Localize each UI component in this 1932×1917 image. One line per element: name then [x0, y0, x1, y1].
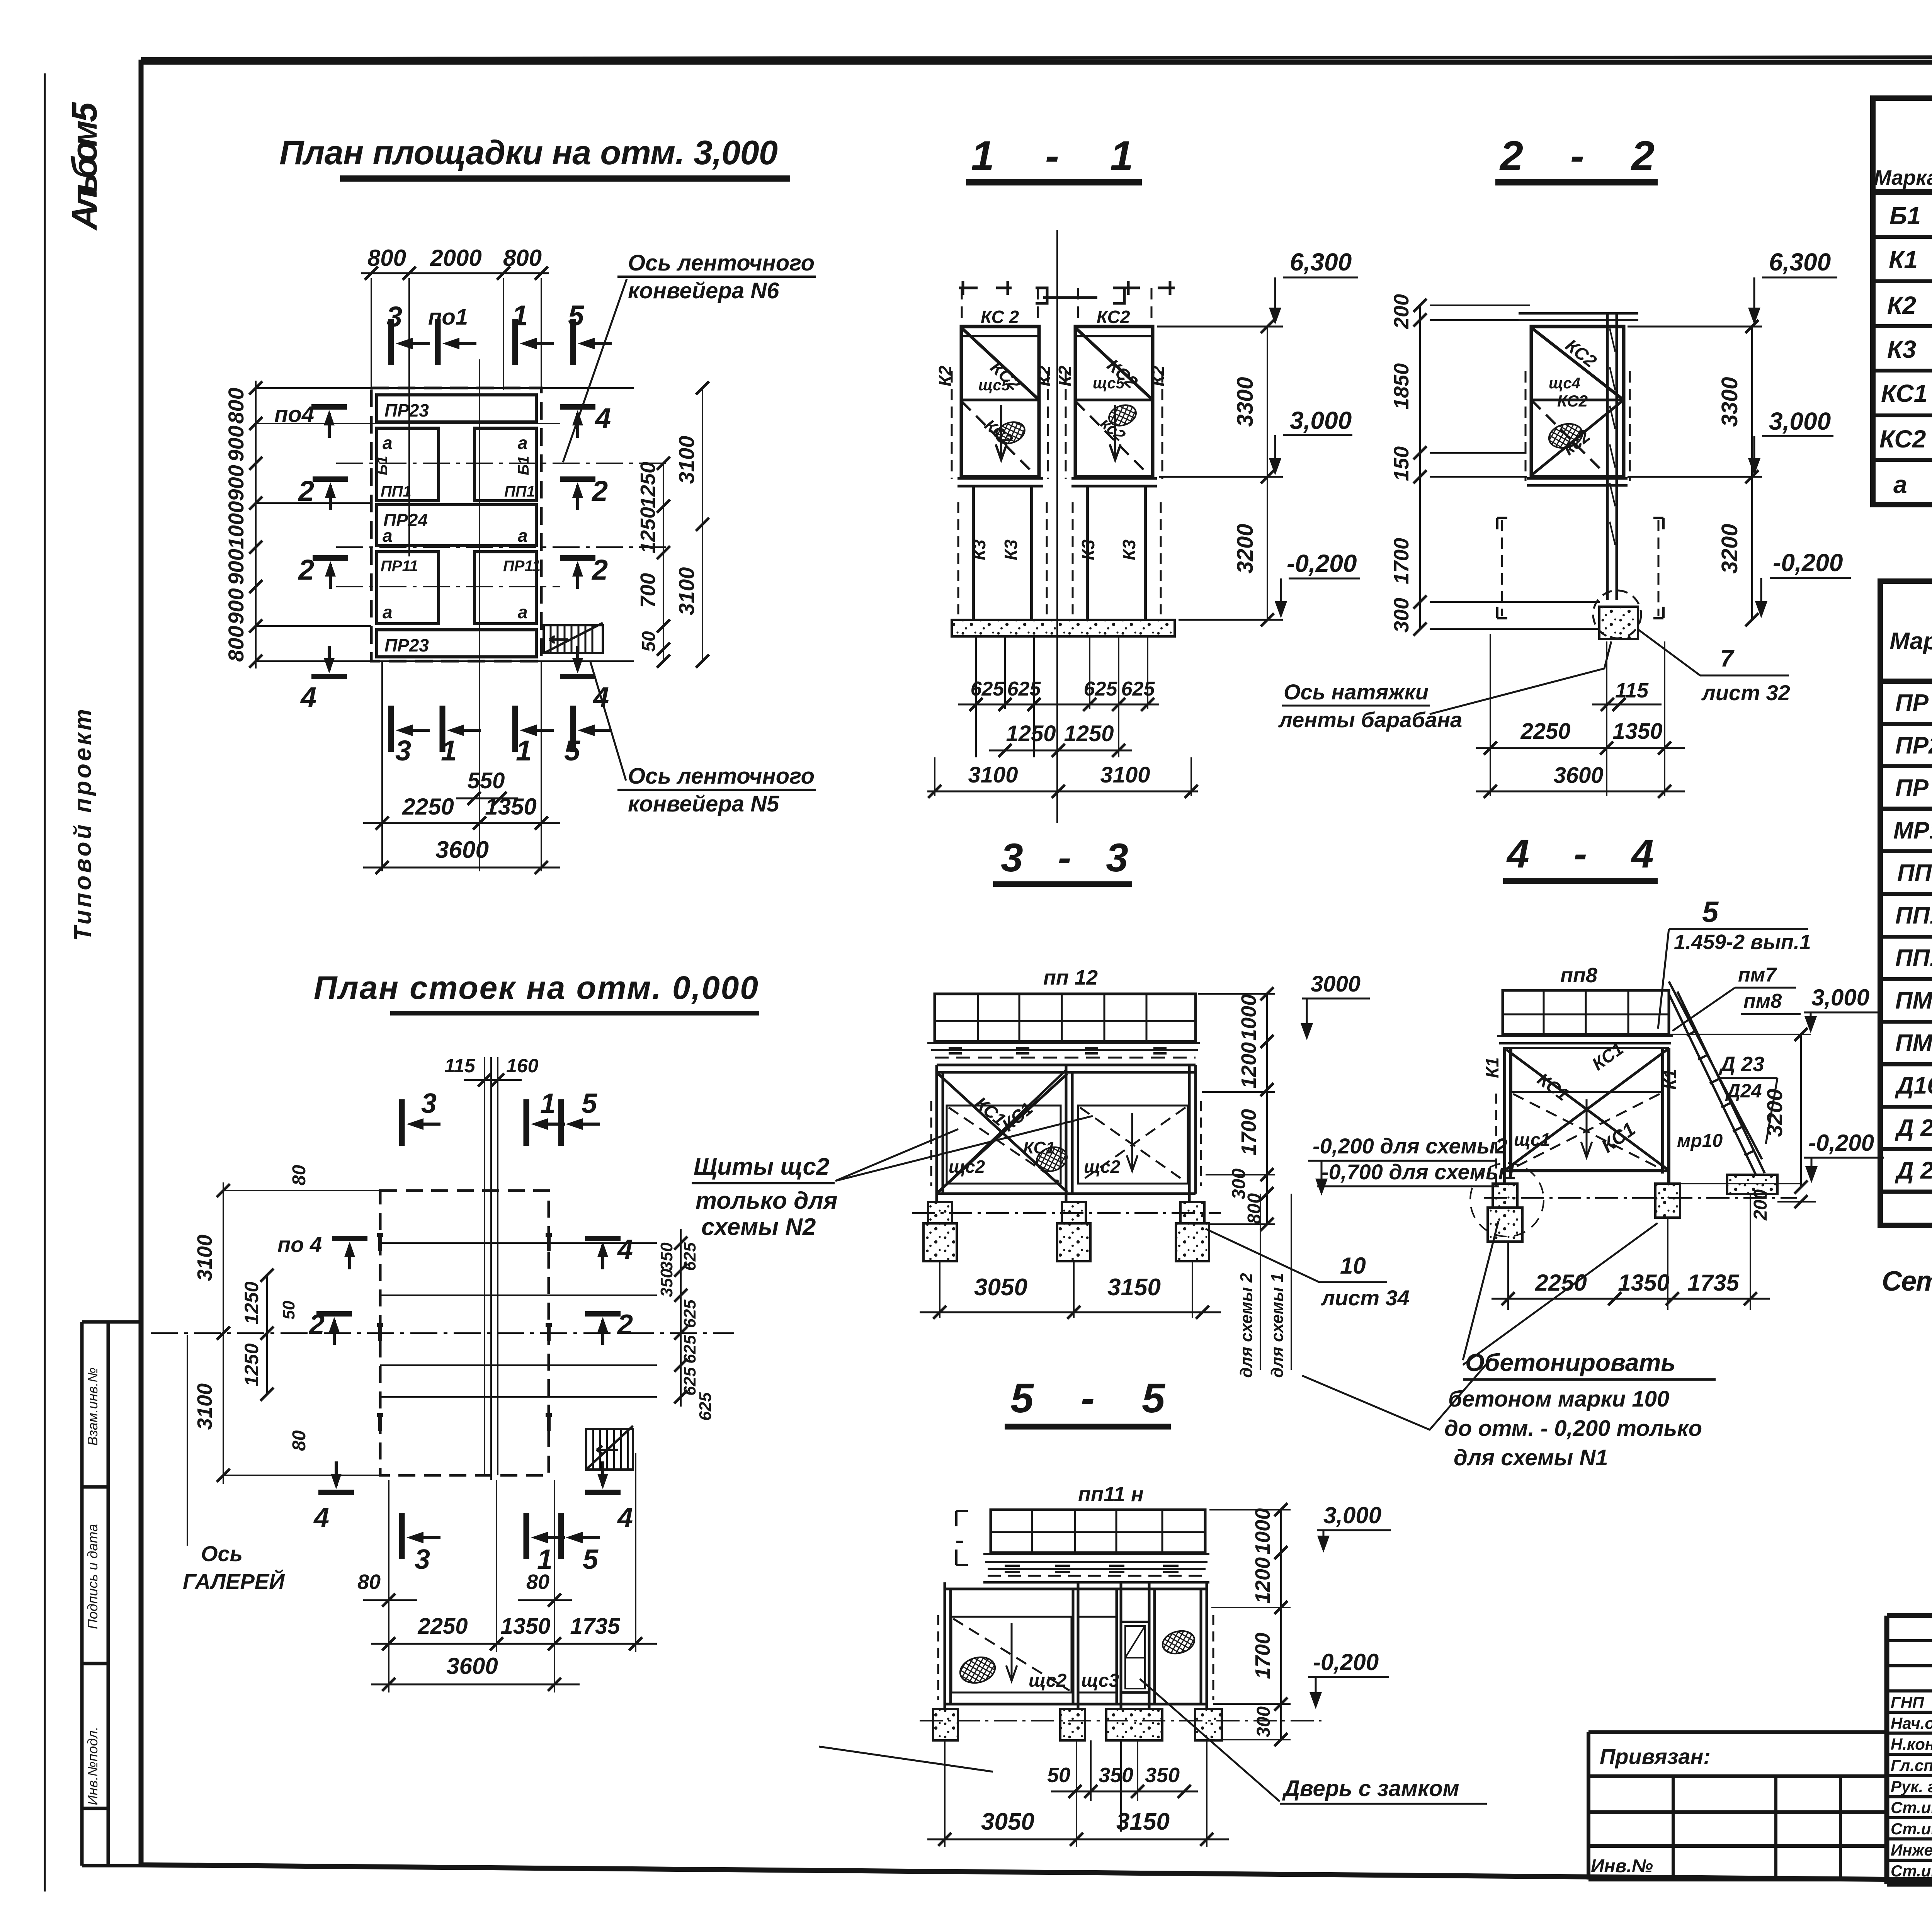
svg-text:ПП1: ПП1	[504, 483, 535, 500]
svg-text:пп8: пп8	[1560, 964, 1597, 987]
svg-text:ГАЛЕРЕЙ: ГАЛЕРЕЙ	[183, 1569, 285, 1594]
svg-text:4: 4	[617, 1502, 633, 1533]
svg-text:3200: 3200	[1717, 524, 1742, 573]
svg-text:2250: 2250	[1520, 719, 1570, 744]
svg-text:К1: К1	[1482, 1057, 1502, 1078]
railing 5-5	[991, 1510, 1205, 1553]
svg-text:ПР23: ПР23	[1895, 732, 1932, 759]
svg-text:К1: К1	[1889, 246, 1918, 274]
svg-text:Взам.инв.№: Взам.инв.№	[85, 1368, 100, 1446]
SECTION 2-2 drawing	[1497, 312, 1663, 639]
svg-text:Инв.№подл.: Инв.№подл.	[85, 1726, 100, 1805]
svg-text:ПП1: ПП1	[381, 483, 412, 500]
svg-text:КС2: КС2	[1557, 392, 1588, 410]
svg-text:К2: К2	[1148, 366, 1168, 386]
svg-text:350: 350	[1145, 1764, 1180, 1787]
svg-text:1735: 1735	[570, 1614, 620, 1639]
left dim ticks + labels	[249, 381, 262, 668]
svg-text:900: 900	[224, 549, 248, 585]
svg-text:2: 2	[591, 475, 608, 507]
column corner marks	[377, 1235, 552, 1431]
svg-text:1350: 1350	[485, 794, 536, 820]
bottom dims 5-5	[1051, 1791, 1198, 1793]
svg-text:2000: 2000	[430, 245, 481, 271]
axis dash-dot lines	[336, 463, 668, 587]
svg-text:а: а	[1893, 471, 1907, 498]
svg-text:КС 2: КС 2	[981, 307, 1019, 327]
svg-text:по 4: по 4	[277, 1232, 322, 1257]
svg-text:ГНП: ГНП	[1891, 1693, 1924, 1711]
svg-text:80: 80	[289, 1165, 310, 1186]
svg-text:1700: 1700	[1237, 1109, 1260, 1155]
paper edge line	[44, 73, 46, 1891]
svg-text:К2: К2	[1034, 366, 1054, 386]
svg-text:ПП12: ПП12	[1895, 945, 1932, 971]
svg-text:350: 350	[1099, 1764, 1133, 1787]
svg-text:4: 4	[594, 402, 611, 434]
svg-text:5: 5	[564, 735, 581, 767]
svg-text:Марка: Марка	[1889, 628, 1932, 655]
title section 1-1	[966, 132, 1142, 182]
stairs hatch	[544, 623, 603, 653]
svg-text:пп11 н: пп11 н	[1078, 1483, 1144, 1506]
svg-text:ПП8: ПП8	[1897, 860, 1932, 886]
svg-text:Д 24: Д 24	[1895, 1157, 1932, 1184]
svg-text:3600: 3600	[446, 1653, 498, 1679]
internal platform boxes	[377, 395, 536, 657]
svg-text:800: 800	[1244, 1193, 1265, 1224]
svg-text:4: 4	[617, 1234, 633, 1265]
svg-text:1: 1	[516, 735, 532, 767]
svg-text:3100: 3100	[674, 567, 699, 616]
svg-text:а: а	[383, 602, 393, 622]
svg-text:по4: по4	[274, 402, 314, 427]
bottom dims 3-3	[920, 1311, 1221, 1313]
frame 3-3	[937, 1065, 1196, 1194]
svg-text:лист 32: лист 32	[1701, 680, 1790, 705]
svg-text:Д16: Д16	[1895, 1072, 1932, 1099]
svg-text:КС2: КС2	[1879, 425, 1926, 453]
bottom dims 4-4	[1492, 1298, 1770, 1300]
svg-text:ПМ7: ПМ7	[1895, 987, 1932, 1014]
svg-text:мр10: мр10	[1677, 1131, 1723, 1151]
hatched gussets	[993, 418, 1027, 447]
svg-text:160: 160	[506, 1055, 539, 1077]
foundations 4-4	[1493, 1184, 1517, 1208]
frame 4-4	[1505, 1048, 1669, 1184]
right dim chain 1250/1250/700/50	[663, 463, 664, 661]
svg-text:3100: 3100	[193, 1235, 216, 1281]
svg-text:3,000: 3,000	[1323, 1502, 1381, 1528]
svg-text:схемы N2: схемы N2	[701, 1214, 816, 1240]
base plates	[957, 478, 1157, 486]
svg-text:щс5: щс5	[1093, 375, 1125, 392]
TABLE 1: Vedomost elementov	[1873, 98, 1932, 505]
svg-text:Б1: Б1	[1889, 202, 1921, 230]
svg-text:МР10: МР10	[1893, 817, 1932, 844]
svg-text:7: 7	[1720, 645, 1735, 672]
svg-text:3000: 3000	[1311, 971, 1361, 997]
right dims 5-5	[1209, 1510, 1291, 1740]
title plan stoek	[314, 970, 759, 1013]
plane markers	[332, 1238, 367, 1269]
left dim chain 2-2	[1419, 304, 1421, 629]
svg-text:115: 115	[444, 1055, 476, 1077]
svg-text:1000: 1000	[1237, 994, 1260, 1041]
svg-text:350: 350	[657, 1269, 676, 1297]
svg-text:для схемы 2: для схемы 2	[1237, 1273, 1256, 1378]
svg-text:1735: 1735	[1687, 1270, 1740, 1296]
svg-text:щс5: щс5	[978, 377, 1010, 394]
svg-text:625: 625	[1084, 678, 1118, 700]
title section 4-4	[1503, 832, 1658, 881]
svg-text:800: 800	[224, 626, 248, 662]
foundation	[1599, 607, 1638, 639]
svg-text:800: 800	[224, 388, 248, 424]
svg-text:3050: 3050	[974, 1274, 1027, 1301]
svg-text:625: 625	[680, 1300, 699, 1328]
svg-text:щс2: щс2	[1084, 1157, 1121, 1177]
tower 2-2	[1531, 327, 1624, 477]
plane markers left/right	[311, 407, 347, 438]
svg-text:3150: 3150	[1107, 1274, 1161, 1301]
svg-text:625: 625	[1121, 678, 1155, 700]
svg-text:1250: 1250	[1006, 721, 1056, 746]
svg-text:50: 50	[639, 631, 659, 652]
svg-text:ПР 24: ПР 24	[1895, 775, 1932, 801]
svg-text:-0,200: -0,200	[1313, 1649, 1379, 1675]
svg-text:50: 50	[279, 1301, 298, 1320]
svg-text:Ось: Ось	[201, 1541, 243, 1566]
svg-text:К3: К3	[1001, 539, 1021, 560]
svg-text:2250: 2250	[417, 1614, 468, 1639]
skhema lines	[1260, 1194, 1291, 1370]
svg-text:1700: 1700	[1251, 1633, 1274, 1679]
deck 3-3	[927, 1043, 1200, 1050]
left dim chain	[255, 381, 257, 668]
svg-text:КС1: КС1	[1023, 1138, 1055, 1157]
svg-text:2 - 2: 2 - 2	[1499, 132, 1655, 179]
lower columns K3	[973, 486, 1145, 620]
svg-text:а: а	[518, 433, 528, 453]
svg-text:3600: 3600	[435, 837, 489, 863]
leader os natyazhki	[1430, 641, 1611, 714]
svg-text:6,300: 6,300	[1290, 248, 1352, 276]
PLAN STOEK drawing	[151, 1057, 734, 1484]
svg-text:625: 625	[1007, 678, 1041, 700]
top clips	[959, 281, 1012, 295]
svg-text:ПР23: ПР23	[384, 400, 429, 420]
beam top lines	[1519, 313, 1638, 320]
svg-text:5: 5	[583, 1544, 599, 1575]
svg-text:4: 4	[300, 681, 316, 713]
svg-text:2250: 2250	[1535, 1270, 1587, 1296]
base plate	[1527, 478, 1628, 485]
door	[1121, 1622, 1149, 1692]
grid lines right extensions	[380, 1243, 657, 1397]
svg-text:Н.контр.: Н.контр.	[1891, 1735, 1932, 1753]
svg-text:пп 12: пп 12	[1043, 966, 1098, 989]
frame 5-5	[945, 1582, 1207, 1709]
leader from shchit to left	[819, 1747, 993, 1772]
svg-text:80: 80	[526, 1570, 549, 1594]
svg-text:5: 5	[568, 299, 585, 332]
TITLE BLOCK bottom right	[1887, 1616, 1932, 1884]
svg-text:6,300: 6,300	[1769, 248, 1831, 276]
svg-text:300: 300	[1253, 1706, 1274, 1737]
svg-text:КС2: КС2	[1097, 307, 1130, 327]
svg-text:2: 2	[591, 554, 608, 586]
svg-text:3: 3	[395, 735, 411, 767]
svg-text:1000: 1000	[1251, 1508, 1274, 1555]
section markers bottom	[391, 706, 430, 752]
svg-text:1250: 1250	[636, 462, 660, 508]
svg-text:щс4: щс4	[1549, 375, 1580, 392]
svg-text:Ось ленточного: Ось ленточного	[628, 250, 815, 276]
svg-text:К1: К1	[1660, 1069, 1680, 1090]
svg-text:для схемы N1: для схемы N1	[1454, 1445, 1608, 1470]
svg-text:по1: по1	[428, 304, 468, 330]
axis labels conveyor N6	[563, 250, 816, 462]
svg-text:План площадки на отм. 3,000: План площадки на отм. 3,000	[279, 133, 778, 172]
svg-text:1350: 1350	[500, 1614, 550, 1639]
svg-text:План стоек на отм. 0,000: План стоек на отм. 0,000	[314, 970, 758, 1006]
svg-text:200: 200	[1750, 1189, 1771, 1221]
privyazan block	[1588, 1732, 1887, 1880]
right small dim chain	[680, 1229, 682, 1407]
svg-text:а: а	[518, 602, 528, 622]
right levels 2-2	[1628, 277, 1851, 620]
svg-text:конвейера N5: конвейера N5	[628, 791, 779, 816]
svg-text:К3: К3	[1119, 539, 1139, 560]
svg-text:Нач.отд.: Нач.отд.	[1891, 1714, 1932, 1732]
svg-text:550: 550	[468, 768, 505, 793]
plan outline dashed	[371, 388, 541, 661]
svg-text:1000: 1000	[224, 501, 248, 549]
title section 5-5	[1005, 1374, 1171, 1427]
svg-text:700: 700	[636, 573, 660, 608]
extension verticals	[389, 1453, 636, 1692]
svg-text:800: 800	[367, 245, 406, 271]
svg-text:Ось натяжки: Ось натяжки	[1284, 680, 1429, 704]
section markers top (plan stoek)	[402, 1099, 440, 1146]
right tower 1-1	[1075, 327, 1153, 477]
table1 data text	[1879, 201, 1932, 498]
svg-text:1250: 1250	[636, 507, 660, 553]
svg-text:Ст.инж.: Ст.инж.	[1891, 1820, 1932, 1838]
svg-text:К2: К2	[1055, 366, 1075, 386]
svg-text:3 - 3: 3 - 3	[1001, 835, 1128, 880]
panels	[951, 1617, 1071, 1692]
svg-text:Альбом 5: Альбом 5	[65, 102, 104, 231]
svg-text:3600: 3600	[1553, 763, 1603, 788]
svg-text:бетоном марки 100: бетоном марки 100	[1448, 1386, 1669, 1412]
svg-text:К3: К3	[1078, 539, 1098, 560]
svg-text:3: 3	[415, 1544, 430, 1575]
svg-text:а: а	[383, 433, 393, 453]
svg-text:-0,200: -0,200	[1287, 549, 1357, 577]
svg-text:Д24: Д24	[1725, 1080, 1762, 1102]
svg-text:3100: 3100	[193, 1383, 216, 1430]
svg-text:5: 5	[582, 1088, 597, 1119]
svg-text:ПП11н: ПП11н	[1895, 902, 1932, 929]
svg-text:КС1: КС1	[1881, 379, 1927, 407]
svg-text:3,000: 3,000	[1290, 407, 1352, 434]
svg-text:-0,200: -0,200	[1808, 1130, 1874, 1156]
title section 2-2	[1495, 132, 1658, 182]
dashed circle left foundation	[1470, 1163, 1544, 1237]
svg-text:3200: 3200	[1762, 1089, 1787, 1137]
svg-text:5: 5	[1702, 896, 1719, 929]
svg-text:а: а	[383, 526, 393, 546]
svg-text:3200: 3200	[1233, 524, 1258, 573]
margin stamp table	[82, 1322, 141, 1866]
svg-text:1250: 1250	[241, 1343, 262, 1386]
svg-text:625: 625	[971, 678, 1005, 700]
right dim chain 3100/3100	[702, 388, 703, 661]
svg-text:1: 1	[512, 299, 528, 332]
svg-text:900: 900	[224, 465, 248, 501]
svg-text:2: 2	[298, 475, 314, 507]
svg-text:4 - 4: 4 - 4	[1506, 832, 1654, 876]
dashed panel strips	[952, 371, 1162, 479]
svg-text:Инв.№: Инв.№	[1591, 1856, 1653, 1876]
svg-text:К3: К3	[1887, 335, 1916, 363]
dashed hidden	[938, 1615, 1213, 1700]
left bracket column	[956, 1511, 968, 1565]
svg-text:Сетчатые щиты ЩС1 ÷ ЩС5 смот: Сетчатые щиты ЩС1 ÷ ЩС5 смотрите на лист…	[1882, 1266, 1932, 1297]
svg-text:1.459-2 вып.1: 1.459-2 вып.1	[1674, 930, 1811, 954]
svg-text:2250: 2250	[402, 794, 454, 820]
top dim line	[361, 272, 549, 274]
title plan ploshchadki	[279, 133, 790, 179]
hidden side columns below	[1502, 520, 1658, 616]
svg-text:только для: только для	[696, 1187, 838, 1214]
svg-text:Ст.инж.: Ст.инж.	[1891, 1798, 1932, 1817]
svg-text:3,000: 3,000	[1769, 407, 1831, 435]
svg-text:Дверь с замком: Дверь с замком	[1282, 1776, 1459, 1801]
svg-text:200: 200	[1390, 294, 1413, 329]
deck 5-5	[983, 1554, 1209, 1582]
svg-text:1250: 1250	[241, 1281, 262, 1324]
bottom dims 1-1	[927, 638, 1198, 796]
svg-text:3100: 3100	[968, 762, 1018, 788]
svg-text:Б1: Б1	[374, 456, 391, 475]
svg-text:80: 80	[289, 1430, 310, 1451]
svg-text:Инженер: Инженер	[1891, 1841, 1932, 1859]
railing 3-3	[935, 994, 1196, 1041]
svg-text:1850: 1850	[1390, 363, 1413, 410]
svg-text:350: 350	[657, 1242, 676, 1271]
section markers bottom (plan stoek)	[402, 1513, 440, 1559]
crossing leader into frame	[937, 1070, 1066, 1194]
svg-text:115: 115	[1615, 679, 1649, 702]
svg-text:800: 800	[503, 245, 542, 271]
svg-text:2: 2	[308, 1309, 325, 1340]
svg-text:Щиты щс2: Щиты щс2	[694, 1153, 829, 1180]
svg-text:-0,700 для схемы1: -0,700 для схемы1	[1321, 1160, 1516, 1184]
svg-text:Ст.инж.: Ст.инж.	[1891, 1862, 1932, 1880]
right dims 3-3	[1266, 994, 1268, 1224]
svg-text:3050: 3050	[981, 1808, 1034, 1835]
svg-text:щс3: щс3	[1081, 1670, 1119, 1691]
svg-text:-0,200 для схемы2: -0,200 для схемы2	[1313, 1134, 1507, 1158]
svg-text:2: 2	[298, 554, 314, 586]
svg-text:Д 23: Д 23	[1719, 1053, 1764, 1076]
svg-text:625: 625	[680, 1367, 699, 1396]
svg-text:1: 1	[441, 735, 457, 767]
svg-text:Марка: Марка	[1874, 166, 1932, 189]
svg-text:3100: 3100	[1100, 762, 1150, 788]
svg-text:1700: 1700	[1390, 538, 1413, 584]
conveyor axis triple lines	[485, 1057, 498, 1480]
svg-text:Обетонировать: Обетонировать	[1465, 1349, 1675, 1376]
left dim chains	[223, 1182, 224, 1484]
left tower 1-1	[961, 327, 1039, 477]
PLAN PLOSHCHADKI drawing	[256, 273, 668, 871]
signature table texts	[1891, 1693, 1932, 1880]
svg-text:625: 625	[680, 1335, 699, 1364]
foundations 3-3	[928, 1202, 952, 1223]
ladder	[1669, 981, 1765, 1175]
svg-text:Привязан:: Привязан:	[1600, 1744, 1711, 1769]
svg-text:Д 23: Д 23	[1895, 1115, 1932, 1141]
axis labels conveyor N5	[590, 662, 816, 816]
SECTION 1-1 drawing	[952, 230, 1175, 823]
long leader to obetonirovat	[1302, 1358, 1492, 1430]
svg-text:конвейера N6: конвейера N6	[628, 278, 779, 303]
svg-text:ПР11: ПР11	[503, 558, 541, 575]
svg-text:Типовой проект: Типовой проект	[70, 709, 96, 941]
svg-text:3100: 3100	[674, 436, 699, 484]
tower labels	[935, 307, 1168, 560]
main dashed rect	[380, 1191, 549, 1475]
svg-text:ленты барабана: ленты барабана	[1278, 708, 1462, 732]
svg-text:4: 4	[313, 1502, 329, 1533]
svg-text:300: 300	[1390, 598, 1413, 633]
bottom dims	[456, 798, 518, 799]
ground strip	[952, 620, 1175, 636]
svg-text:900: 900	[224, 425, 248, 461]
svg-text:625: 625	[680, 1242, 699, 1271]
section markers top	[391, 319, 430, 365]
svg-text:Рук. гр.: Рук. гр.	[1891, 1778, 1932, 1796]
svg-text:3,000: 3,000	[1811, 985, 1869, 1010]
svg-text:Гл.спец.: Гл.спец.	[1891, 1756, 1932, 1774]
svg-text:ПР11: ПР11	[381, 558, 418, 575]
central column double	[1607, 312, 1617, 600]
svg-text:1350: 1350	[1618, 1270, 1669, 1296]
svg-text:900: 900	[224, 588, 248, 624]
svg-text:до отм. - 0,200 только: до отм. - 0,200 только	[1444, 1416, 1702, 1441]
svg-text:пм8: пм8	[1743, 990, 1782, 1012]
svg-text:ПР23: ПР23	[384, 635, 429, 655]
svg-text:3300: 3300	[1233, 377, 1258, 427]
railing 4-4	[1503, 990, 1669, 1034]
stairs plan	[586, 1429, 633, 1470]
svg-text:150: 150	[1390, 446, 1413, 481]
svg-text:1200: 1200	[1251, 1557, 1274, 1604]
svg-text:10: 10	[1340, 1253, 1366, 1279]
svg-text:ПМ8: ПМ8	[1895, 1030, 1932, 1056]
svg-text:1: 1	[540, 1088, 556, 1119]
foundations 5-5	[933, 1709, 958, 1740]
bottom dims 2-2	[1476, 634, 1685, 796]
svg-text:2: 2	[617, 1309, 633, 1340]
svg-text:80: 80	[357, 1570, 381, 1594]
svg-text:1250: 1250	[1064, 721, 1114, 746]
svg-text:1350: 1350	[1612, 719, 1662, 744]
